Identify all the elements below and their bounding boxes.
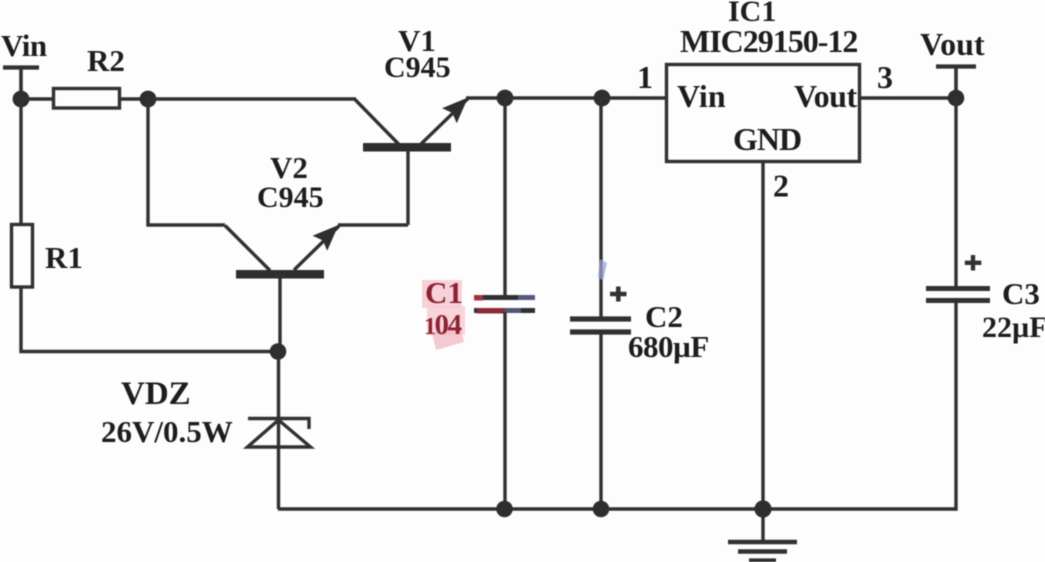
junction dot C1 at ground rail bbox=[496, 501, 513, 518]
svg-text:C945: C945 bbox=[384, 51, 451, 84]
wire node B to V1 collector bbox=[148, 97, 356, 100]
wire IC1 pin 3 to Vout node bbox=[860, 96, 957, 99]
wire V2 emitter to V1 base bbox=[338, 223, 408, 226]
junction dot node D (C2 top) bbox=[594, 90, 611, 107]
polarity + (C2) bbox=[610, 287, 627, 302]
svg-text:Vout: Vout bbox=[794, 78, 857, 114]
svg-text:104: 104 bbox=[424, 309, 462, 341]
svg-text:C1: C1 bbox=[425, 275, 463, 310]
wire node D down to C2 bbox=[599, 98, 602, 317]
wire C2 bottom to ground rail bbox=[599, 334, 602, 509]
svg-text:R2: R2 bbox=[87, 43, 125, 78]
watermark blue tick near C2 lead bbox=[598, 259, 607, 281]
junction dot C2 at ground rail bbox=[593, 501, 610, 518]
svg-text:VDZ: VDZ bbox=[121, 376, 191, 412]
svg-text:R1: R1 bbox=[45, 240, 83, 275]
wire Vin node to R2 left bbox=[21, 97, 54, 100]
polarity + (C3) bbox=[965, 255, 982, 271]
node Vin terminal bbox=[3, 68, 39, 100]
resistor R2 bbox=[54, 89, 120, 109]
svg-text:680µF: 680µF bbox=[628, 329, 709, 364]
junction dot GND pin at ground rail bbox=[754, 500, 771, 517]
wire R1 bottom to node F bbox=[21, 287, 278, 352]
wire V1 emitter to node C bbox=[466, 96, 505, 99]
svg-text:2: 2 bbox=[773, 168, 789, 204]
watermark pink patches behind C1 labels bbox=[422, 280, 465, 350]
transistor V1 bbox=[355, 98, 469, 226]
svg-text:1: 1 bbox=[637, 59, 653, 95]
wire node F down to VDZ bbox=[277, 351, 280, 418]
svg-text:MIC29150-12: MIC29150-12 bbox=[680, 23, 857, 59]
wire node B down to V2 base bbox=[148, 99, 225, 225]
wire node C down to C1 bbox=[503, 98, 506, 296]
transistor V2 bbox=[225, 225, 339, 351]
svg-text:V2: V2 bbox=[270, 150, 308, 185]
svg-text:C945: C945 bbox=[257, 181, 324, 214]
wire IC1 GND pin 2 down to ground bbox=[761, 162, 764, 541]
wire Vin node down to R1 bbox=[19, 99, 22, 225]
wire C3 bottom to ground rail bbox=[954, 303, 956, 509]
node Vout terminal bbox=[936, 67, 976, 99]
svg-text:Vin: Vin bbox=[677, 78, 726, 114]
wire node C to node D bbox=[505, 96, 602, 99]
svg-text:22µF: 22µF bbox=[982, 311, 1045, 344]
capacitor C2 bbox=[570, 319, 631, 332]
svg-text:Vin: Vin bbox=[1, 28, 47, 63]
junction dot at Vin/R1/R2 node bbox=[13, 91, 30, 108]
svg-text:C3: C3 bbox=[1002, 276, 1040, 311]
wire R2 right to node B bbox=[120, 97, 149, 100]
svg-text:Vout: Vout bbox=[920, 26, 985, 62]
wire C1 bottom to ground rail bbox=[503, 312, 506, 509]
junction dot node F (R1/V2 collector/VDZ) bbox=[270, 343, 287, 360]
svg-text:26V/0.5W: 26V/0.5W bbox=[101, 414, 233, 449]
resistor R1 bbox=[12, 225, 33, 288]
ground symbol bbox=[728, 542, 797, 561]
watermark red/blue overlays on C1 plates bbox=[474, 295, 535, 314]
ground rail wire (bottom) bbox=[278, 507, 956, 511]
junction dot node B (R2 right / V2 base feed) bbox=[140, 91, 157, 108]
capacitor C3 bbox=[926, 289, 990, 301]
wire Vout node down to C3 bbox=[954, 98, 957, 286]
wire node D to IC1 pin 1 bbox=[602, 96, 666, 99]
junction dot node C (C1 top) bbox=[497, 90, 514, 107]
capacitor C1 bbox=[474, 298, 535, 311]
svg-text:3: 3 bbox=[877, 59, 893, 95]
svg-text:GND: GND bbox=[733, 121, 801, 157]
junction dot Vout node bbox=[948, 90, 965, 107]
zener diode VDZ bbox=[248, 418, 311, 509]
op-amp/regulator IC1 MIC29150-12 box bbox=[667, 65, 860, 162]
